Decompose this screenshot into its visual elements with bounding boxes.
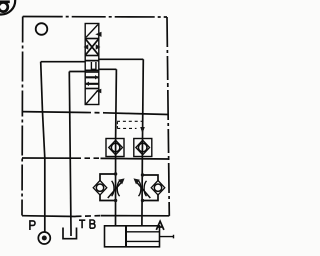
throttle F2 arrow: [136, 181, 151, 198]
pilot check valve V2 poppet: [136, 140, 150, 155]
wire A riser: [142, 59, 143, 226]
stack divider line y=112 (chain): [22, 111, 86, 114]
wire P port line to valve: [41, 61, 86, 63]
enclosure border bottom (chain line): [22, 215, 76, 218]
pilot check valve V2 box: [134, 139, 152, 157]
figure badge circled 5 (clipped at top-left corner): [0, 0, 15, 15]
wire A port line from valve: [99, 58, 144, 60]
check valve in F1 bypass: [93, 181, 107, 195]
pilot check valve V1 poppet: [109, 140, 123, 155]
enclosure border left (chain line): [21, 17, 24, 216]
label B: [90, 220, 95, 228]
throttle F2 restrictor arcs: [139, 181, 147, 196]
valve position parallel bars: [86, 77, 99, 84]
junction dots F2: [141, 173, 144, 176]
solenoid bottom diagonal: [86, 90, 98, 104]
valve centre blocked port U: [91, 62, 96, 69]
solenoid top diagonal: [86, 25, 98, 38]
throttle F1 bypass loop: [100, 174, 116, 201]
cylinder piston: [125, 226, 127, 247]
label A: [156, 221, 164, 230]
label T: [79, 220, 85, 228]
junction dots F1: [114, 172, 117, 175]
solenoid bottom arrow: [96, 89, 102, 93]
orifice/vent circle top-left: [36, 23, 48, 35]
wire T port line to valve: [69, 71, 85, 73]
cylinder body: [105, 226, 160, 247]
solenoid top arrow: [95, 32, 101, 37]
cylinder rod: [126, 232, 174, 242]
wire T riser: [69, 72, 71, 237]
throttle F1 arrow: [108, 181, 123, 198]
stack divider line y=158 (chain): [22, 157, 76, 159]
wire B port line from valve: [99, 68, 117, 70]
throttle F1 restrictor arcs: [112, 181, 120, 196]
throttle F2 bypass loop: [143, 175, 159, 201]
enclosure border top (chain line): [23, 16, 167, 19]
tank symbol: [63, 228, 77, 239]
pilot line dashed lower: [117, 127, 136, 129]
pilot line dashed upper: [117, 120, 143, 122]
pilot check valve V1 box: [106, 139, 124, 157]
enclosure border right (chain line): [167, 17, 169, 216]
valve centre position paths: [85, 61, 99, 71]
wire P riser: [41, 62, 45, 233]
pilot arrow into A line: [140, 127, 145, 134]
check valve in F2 bypass: [151, 181, 165, 195]
port P symbol: [38, 232, 50, 244]
wire B riser: [115, 69, 118, 226]
label P: [30, 221, 35, 230]
valve position X (crossed arrows): [86, 39, 99, 54]
solenoid valve U1 body boxes: [85, 24, 99, 105]
